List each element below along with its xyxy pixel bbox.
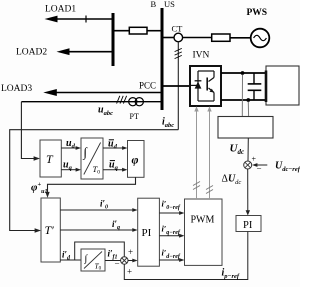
slashes gate 1 [193, 182, 200, 186]
wire LOAD2 feeder with arrow [67, 51, 113, 53]
svg-text:US: US [164, 0, 175, 9]
wire u_q averaged [103, 169, 123, 171]
wire i'_q [60, 229, 132, 231]
svg-text:PCC: PCC [139, 81, 156, 91]
impedance Z1 (series rectangle) [129, 27, 147, 34]
wire gate signal 2 [209, 109, 211, 200]
svg-text:PI: PI [243, 220, 253, 231]
svg-text:LOAD1: LOAD1 [45, 5, 76, 15]
wire i_p-ref feedback to summer S1 [124, 232, 248, 280]
summer S2 (circle-X) [244, 161, 252, 169]
CT current transformer [174, 33, 183, 42]
wire DC rail - [221, 99, 266, 101]
converter internals: IGBT Q1 + diode D1 [190, 84, 198, 86]
transistor Q1 (IGBT) [213, 71, 215, 78]
wire u_abc to T [21, 102, 34, 159]
source PWS (AC grid) [251, 29, 270, 48]
capacitor C1 [253, 73, 255, 84]
block PI (DC voltage regulator) [236, 216, 261, 232]
wire i'_d direct bridge to summer [75, 242, 125, 260]
3-phase slashes on u_abc tap [117, 96, 120, 104]
svg-text:CT: CT [172, 24, 184, 34]
junction dot on + rail [241, 71, 245, 75]
wire PCC voltage tap u_abc [21, 101, 162, 103]
svg-text:T′: T′ [45, 223, 55, 237]
block T' (abc->dq0 transform) [41, 198, 60, 262]
svg-text:PT: PT [130, 112, 139, 121]
svg-text:+: + [252, 155, 257, 164]
svg-text:−: − [115, 259, 120, 269]
block phi (phase detect) [128, 141, 145, 178]
wire voltage sense + [241, 75, 243, 117]
block T (abc->dq transform) [40, 140, 61, 177]
wire DC rail + [221, 72, 266, 74]
wire BUS to converter (AC side) [162, 85, 190, 87]
PT potential transformer [129, 98, 137, 106]
svg-text:φ: φ [132, 153, 139, 167]
converter U1 box [190, 66, 221, 106]
svg-text:PWM: PWM [191, 215, 215, 226]
svg-text:PI: PI [142, 227, 152, 239]
block PWM modulation control (PWM调制控制) [185, 199, 223, 265]
wire u_d averaged [103, 147, 123, 149]
wire i'_d-ref [159, 259, 179, 261]
impedance Z2 (series rectangle) [212, 34, 230, 41]
wire voltage sense - [247, 102, 249, 117]
junction dot on - rail [246, 98, 250, 102]
svg-text:PWS: PWS [247, 8, 268, 18]
svg-text:LOAD2: LOAD2 [16, 48, 47, 58]
wire delta U_dc to PI [247, 169, 249, 211]
block integrator 1/T0 (voltage averaging) [81, 138, 103, 179]
load bus (left busbar) [112, 13, 115, 66]
svg-text:+: + [127, 267, 132, 277]
wire LOAD1 feeder with arrow [55, 18, 113, 20]
svg-text:IVN: IVN [193, 51, 210, 61]
3-phase slashes on CT secondary [175, 48, 182, 51]
DC voltage measurement box (直流电压测量) [218, 117, 273, 139]
wire i'_0-ref [159, 212, 179, 214]
value label ubar_q [110, 160, 115, 162]
wire U_dc-ref into summer [257, 164, 268, 166]
wire U_dc to summer S2 [247, 138, 249, 161]
wire i'_0 [60, 209, 132, 211]
block integrator 1/T0 (current filter) [81, 249, 105, 271]
summer S1 (circle-X) [121, 257, 128, 264]
slashes gate 2 [206, 186, 213, 190]
breaker tick on LOAD1 feeder [85, 16, 87, 23]
wire gate signal 1 [196, 109, 198, 200]
wire grid line BUS to PWS [162, 37, 174, 39]
busbar BUS [161, 8, 164, 110]
wire load-bus to BUS [113, 30, 129, 32]
wire i'_q-ref [159, 235, 179, 237]
value label ubar_d [109, 139, 114, 141]
wire LOAD3 feeder with arrow [55, 92, 162, 94]
svg-text:B: B [151, 0, 157, 9]
distributed source box (分布式电源) [266, 66, 299, 105]
wire i_abc to T' [10, 130, 179, 231]
diode D1 [195, 82, 202, 89]
wire CT secondary / i_abc sense (vertical) [177, 42, 179, 130]
wire phi to T' [48, 177, 136, 192]
svg-text:+: + [128, 247, 133, 257]
wire i'_d [60, 259, 81, 261]
wire u_d [61, 147, 76, 149]
wire summer S1 to PI [128, 260, 133, 262]
wire i'_f1 to summer [105, 260, 121, 262]
block PI (current regulators) [138, 198, 160, 266]
wire u_q [61, 169, 76, 171]
svg-text:LOAD3: LOAD3 [1, 84, 32, 94]
